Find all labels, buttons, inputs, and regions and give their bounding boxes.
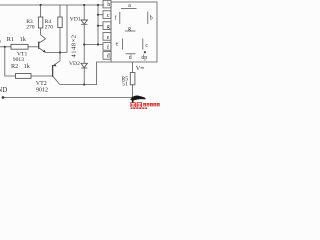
svg-text:h: h — [107, 2, 110, 8]
wire stub to pin c — [98, 14, 103, 16]
diode VD2 — [81, 63, 87, 67]
watermark logo swoosh — [130, 96, 145, 101]
svg-text:f: f — [115, 15, 117, 22]
svg-text:d: d — [107, 54, 110, 60]
svg-text:VT2: VT2 — [36, 81, 47, 87]
pin e — [103, 33, 111, 41]
transistor VT2 — [53, 61, 60, 66]
wire R4 bottom lead to VT2 emitter — [59, 28, 61, 61]
node R3 top junction — [40, 4, 42, 6]
wire R2 to VT2 base — [31, 75, 52, 77]
segment b — [147, 12, 149, 25]
diode VD1 — [81, 20, 87, 24]
svg-text:9012: 9012 — [36, 87, 48, 93]
resistor R4 — [58, 17, 62, 28]
wire R1 to VT1 base — [28, 46, 39, 48]
wire R4 top lead — [59, 5, 61, 17]
wire VD2 cathode lead — [83, 68, 85, 85]
wire display V- lead — [132, 62, 134, 73]
wire VT1 emitter rail — [46, 52, 67, 54]
svg-text:e: e — [107, 35, 110, 41]
pin g — [103, 22, 111, 30]
watermark red seal text — [130, 102, 159, 109]
svg-text:270: 270 — [26, 24, 35, 30]
svg-text:dp: dp — [141, 55, 147, 61]
wire VD1 to VD2 — [83, 24, 85, 63]
svg-text:ND: ND — [0, 87, 7, 94]
svg-text:g: g — [107, 24, 110, 30]
wire top V+ rail — [0, 4, 104, 6]
resistor R3 — [38, 17, 42, 28]
wire VT2 collector to VD2 cathode and display d pin — [60, 62, 111, 85]
svg-text:VD1: VD1 — [70, 17, 81, 23]
svg-text:e: e — [116, 42, 119, 48]
segment dp — [144, 51, 146, 53]
segment d — [126, 53, 136, 55]
node VD2 bottom junction — [83, 83, 85, 85]
svg-text:b: b — [150, 16, 153, 22]
svg-text:f: f — [107, 44, 109, 51]
svg-text:V: V — [136, 65, 141, 72]
wire VD1 anode lead — [83, 5, 85, 20]
pin c — [103, 11, 111, 19]
node left junction — [4, 46, 6, 48]
svg-text:270: 270 — [45, 24, 54, 30]
pin h — [103, 0, 111, 8]
wire R3 top lead — [40, 5, 42, 17]
pin f — [103, 43, 111, 51]
wire R5 bottom lead — [132, 85, 134, 98]
wire R3 bottom lead — [41, 28, 46, 39]
transistor VT1 — [39, 39, 46, 43]
svg-text:51: 51 — [122, 82, 128, 88]
wire bottom rail — [3, 97, 136, 99]
svg-text:VD2: VD2 — [69, 61, 80, 67]
resistor R5 — [130, 73, 135, 85]
pin d — [103, 52, 111, 60]
svg-text:c: c — [145, 43, 148, 49]
wire stub to pin g — [98, 25, 103, 27]
wire segment bus — [97, 5, 99, 45]
svg-text:4148×2: 4148×2 — [70, 34, 77, 57]
wire VD junction to pin f — [84, 44, 103, 46]
7-segment display box — [111, 2, 157, 62]
node VD1 top junction — [83, 4, 85, 6]
svg-text:c: c — [107, 13, 110, 19]
segment c — [142, 39, 144, 50]
node emitter wire crossing — [59, 51, 61, 53]
wire right V+ drop — [66, 5, 68, 53]
svg-text:d: d — [129, 55, 132, 61]
wire left drop to R2 — [5, 47, 16, 76]
